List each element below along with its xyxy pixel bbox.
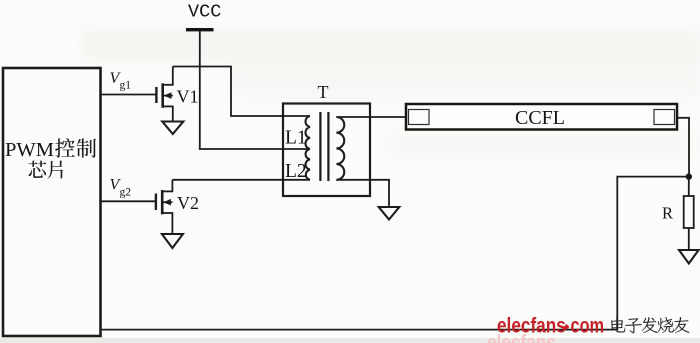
transistor V1 (NMOS)	[156, 67, 172, 122]
svg-text:CCFL: CCFL	[515, 107, 565, 129]
IC PWM controller chip box	[3, 68, 101, 336]
ground below V1	[162, 122, 183, 135]
label PWM控制 line 1	[5, 138, 96, 161]
svg-text:elecfans: elecfans	[497, 314, 566, 338]
ground below V2	[162, 234, 183, 248]
wire secondary top to CCFL	[336, 116, 406, 118]
label 芯片 line 2	[28, 161, 63, 179]
transformer core	[319, 112, 321, 181]
wire VCC to transformer center tap	[199, 148, 310, 150]
winding L2 primary	[306, 149, 310, 180]
resistor R	[684, 177, 694, 250]
lamp CCFL tube	[406, 104, 677, 130]
watermark 电子发烧友	[611, 317, 690, 333]
wire secondary bottom to ground	[336, 180, 389, 207]
winding secondary	[336, 117, 344, 180]
wire V1 drain to L1 top	[173, 67, 310, 117]
svg-text:T: T	[318, 82, 329, 102]
svg-text:R: R	[662, 204, 673, 223]
wire feedback to PWM	[100, 177, 689, 330]
transformer T box	[283, 104, 370, 197]
wire PWM output 1 to V1 gate	[100, 94, 157, 96]
power VCC rail bar	[186, 28, 214, 31]
svg-text:V2: V2	[177, 193, 199, 213]
svg-text:L2: L2	[285, 161, 307, 182]
winding L1 primary	[305, 116, 310, 149]
transistor V2 (NMOS)	[156, 180, 173, 234]
svg-text:PWM: PWM	[5, 139, 54, 161]
label Vg1	[110, 70, 132, 92]
svg-text:g2: g2	[120, 187, 132, 199]
node junction dot	[686, 173, 692, 179]
label Vg2	[110, 177, 132, 199]
ground secondary	[379, 207, 400, 220]
ground below R	[679, 250, 699, 264]
wire VCC stem	[199, 31, 201, 149]
svg-text:g1: g1	[120, 80, 132, 92]
watermark elecfans.com	[497, 314, 604, 338]
svg-text:com: com	[571, 314, 605, 338]
wire PWM output 2 to V2 gate	[100, 200, 156, 202]
wire V2 drain to L2 bottom	[172, 179, 310, 181]
svg-text:L1: L1	[285, 128, 307, 149]
svg-text:V1: V1	[177, 87, 199, 107]
wire CCFL right to junction	[677, 118, 689, 177]
watermark elecfans ghost	[487, 331, 556, 343]
svg-text:VCC: VCC	[188, 2, 221, 23]
